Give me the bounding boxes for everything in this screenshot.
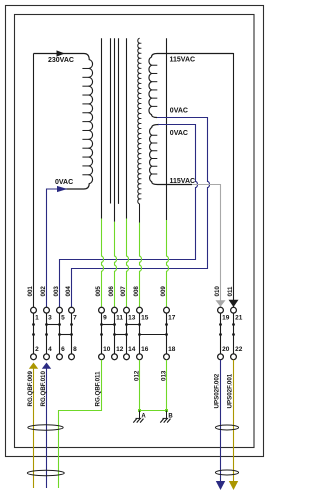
- scalloped screen winding (wire 008 source): [138, 38, 142, 222]
- svg-text:013: 013: [161, 370, 168, 381]
- label wire 013: [161, 370, 168, 381]
- svg-text:0VAC: 0VAC: [170, 130, 188, 137]
- svg-text:008: 008: [133, 286, 140, 297]
- terminal 11/12: [112, 307, 124, 359]
- terminal 7/8: [69, 307, 78, 359]
- svg-text:RG.QBF.009: RG.QBF.009: [27, 371, 34, 407]
- svg-text:20: 20: [222, 346, 230, 353]
- wire 003 net (sec2 0VAC lead to terminal 5, navy): [60, 125, 198, 308]
- arrow wire 011 (black, down): [229, 300, 239, 307]
- wire RG.QBF.011 (green): [59, 360, 102, 488]
- label UPS02F.002: [214, 373, 221, 408]
- enclosure outer border: [6, 6, 264, 457]
- svg-text:115VAC: 115VAC: [170, 57, 196, 64]
- svg-text:004: 004: [65, 286, 72, 297]
- svg-text:21: 21: [235, 315, 243, 322]
- label wire 004: [65, 286, 72, 297]
- terminal 5/6: [57, 307, 66, 359]
- transformer T1 primary winding: [34, 54, 93, 190]
- svg-text:17: 17: [168, 315, 176, 322]
- screen lead (wire 009 source): [166, 38, 168, 220]
- label ground A: [141, 414, 146, 420]
- transformer core line middle (lead to wire 006): [114, 38, 116, 222]
- svg-text:6: 6: [61, 346, 65, 353]
- label wire 003: [53, 286, 60, 297]
- terminal 15/16: [137, 307, 149, 359]
- wire 008 (green, screen to terminal 15): [140, 223, 142, 308]
- svg-text:003: 003: [53, 286, 60, 297]
- ground bus A-B (green): [140, 410, 167, 412]
- jumper terminals 13-15: [127, 324, 140, 326]
- label RG.QBF.011: [95, 371, 102, 407]
- svg-text:005: 005: [95, 286, 102, 297]
- cable marker left outer: [27, 470, 64, 475]
- svg-text:15: 15: [141, 315, 149, 322]
- terminal 21/22: [231, 307, 243, 359]
- svg-text:115VAC: 115VAC: [170, 178, 196, 185]
- terminal 1/2: [31, 307, 39, 359]
- transformer T1 secondary winding 1: [149, 54, 234, 118]
- junction square B: [165, 409, 168, 412]
- label 0VAC secondary1 bottom: [170, 107, 188, 114]
- svg-text:002: 002: [40, 286, 47, 297]
- svg-text:7: 7: [73, 315, 77, 322]
- label wire 006: [108, 286, 115, 297]
- svg-text:UPS02F.001: UPS02F.001: [227, 373, 234, 408]
- svg-text:RG.QBF.011: RG.QBF.011: [95, 371, 102, 407]
- svg-text:9: 9: [103, 315, 107, 322]
- svg-text:007: 007: [120, 286, 127, 297]
- wire 010 (115VAC sec2 to terminal 19, gray): [192, 185, 221, 308]
- wire 013 (green, terminal 18 to ground B): [166, 360, 168, 411]
- cable marker right outer: [215, 470, 238, 475]
- label wire 010: [214, 286, 221, 297]
- svg-text:18: 18: [168, 346, 176, 353]
- svg-text:3: 3: [48, 315, 52, 322]
- label 0VAC primary: [55, 179, 73, 186]
- wire 011 (115VAC sec1 to terminal 21, black): [157, 54, 234, 308]
- jumper terminals 5-7: [60, 334, 72, 336]
- label RG.QBF.010: [40, 371, 47, 407]
- label UPS02F.001: [227, 373, 234, 408]
- screen lead (wire 005 source): [101, 38, 103, 218]
- svg-text:010: 010: [214, 286, 221, 297]
- wire 002 (0VAC primary to terminal 3, navy): [47, 189, 68, 307]
- label RG.QBF.009: [27, 371, 34, 407]
- wire 001 (230VAC to terminal 1): [33, 54, 35, 308]
- wire UPS02F.002 (navy): [220, 360, 222, 482]
- wire 004 net (sec1 0VAC lead to terminal 7, navy): [72, 118, 210, 308]
- svg-text:1: 1: [35, 315, 39, 322]
- arrow UPS02F.001 (olive, down): [229, 481, 238, 490]
- svg-text:13: 13: [128, 315, 136, 322]
- svg-text:22: 22: [235, 346, 243, 353]
- svg-text:012: 012: [134, 370, 141, 381]
- wire UPS02F.001 (olive): [233, 360, 235, 482]
- svg-text:RG.QBF.010: RG.QBF.010: [40, 371, 47, 407]
- svg-text:2: 2: [35, 346, 39, 353]
- label wire 007: [120, 286, 127, 297]
- svg-text:12: 12: [116, 346, 124, 353]
- arrow RG.QBF.009 (olive, up): [29, 363, 38, 369]
- svg-text:230VAC: 230VAC: [48, 57, 74, 64]
- wire 009 (green, screen to terminal 17): [167, 220, 169, 307]
- screen lead (wire 007 source): [126, 38, 128, 218]
- svg-text:B: B: [168, 414, 173, 420]
- svg-text:5: 5: [61, 315, 65, 322]
- label 230VAC: [48, 57, 74, 64]
- svg-text:10: 10: [103, 346, 111, 353]
- svg-text:009: 009: [160, 286, 167, 297]
- wire 006 (green, core to terminal 11): [115, 222, 117, 307]
- cable marker left inner: [28, 425, 63, 430]
- transformer core line left: [110, 38, 112, 203]
- svg-text:4: 4: [48, 346, 52, 353]
- terminal 3/4: [44, 307, 53, 359]
- label wire 002: [40, 286, 47, 297]
- svg-text:001: 001: [27, 286, 34, 297]
- terminal 17/18: [164, 307, 176, 359]
- svg-text:006: 006: [108, 286, 115, 297]
- wire 012 (green, terminal 16 to ground A): [139, 360, 141, 411]
- svg-text:8: 8: [73, 346, 77, 353]
- label wire 009: [160, 286, 167, 297]
- label wire 001: [27, 286, 34, 297]
- svg-text:0VAC: 0VAC: [170, 107, 188, 114]
- jumper terminals 3-5: [47, 324, 60, 326]
- wire 007 (green, screen to terminal 13): [127, 219, 129, 308]
- wire 005 (green, screen to terminal 9): [102, 219, 104, 308]
- arrow UPS02F.002 (navy, down): [216, 481, 225, 490]
- junction square A: [138, 409, 141, 412]
- enclosure inner border: [15, 15, 255, 448]
- label ground B: [168, 414, 173, 420]
- arrow 0VAC (navy, right): [57, 186, 67, 192]
- wire RG.QBF.009 (olive): [33, 368, 35, 488]
- terminal 9/10: [99, 307, 111, 359]
- transformer T1 secondary winding 2: [150, 125, 192, 185]
- ground A (chassis): [133, 411, 143, 423]
- svg-text:011: 011: [227, 286, 234, 297]
- label 115VAC secondary2 bottom: [170, 178, 196, 185]
- wire RG.QBF.010 (navy): [46, 368, 48, 488]
- svg-text:19: 19: [222, 315, 230, 322]
- svg-text:11: 11: [116, 315, 123, 322]
- svg-text:A: A: [141, 414, 146, 420]
- jumper terminals 11-13: [115, 334, 127, 336]
- arrow 230VAC (black, right): [57, 50, 65, 56]
- ground B (chassis): [160, 411, 170, 423]
- arrow wire 010 (gray, down): [216, 300, 226, 307]
- svg-text:14: 14: [128, 346, 136, 353]
- svg-text:UPS02F.002: UPS02F.002: [214, 373, 221, 408]
- label wire 012: [134, 370, 141, 381]
- jumper terminals 9-11: [102, 324, 115, 326]
- terminal 19/20: [218, 307, 230, 359]
- svg-text:16: 16: [141, 346, 149, 353]
- jumper terminals 15-17: [140, 334, 167, 336]
- label 0VAC secondary2 top: [170, 130, 188, 137]
- svg-text:0VAC: 0VAC: [55, 179, 73, 186]
- label 115VAC secondary1 top: [170, 57, 196, 64]
- label wire 011: [227, 286, 234, 297]
- label wire 008: [133, 286, 140, 297]
- arrow RG.QBF.010 (navy, up): [42, 363, 51, 369]
- transformer core line right: [118, 38, 120, 204]
- terminal 13/14: [124, 307, 136, 359]
- label wire 005: [95, 286, 102, 297]
- cable marker right inner: [215, 425, 238, 430]
